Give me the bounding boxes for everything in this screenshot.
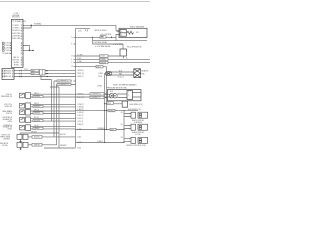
svg-text:SIG RTN: SIG RTN [12, 60, 19, 62]
svg-text:1: 1 [121, 31, 122, 33]
svg-text:MODULE: MODULE [12, 17, 20, 19]
svg-text:1 PNK (2): 1 PNK (2) [77, 104, 84, 106]
svg-text:2 GRN/RTN: 2 GRN/RTN [3, 73, 11, 75]
svg-text:3 GRY (2): 3 GRY (2) [77, 76, 84, 78]
svg-text:4 GRN: 4 GRN [77, 129, 81, 131]
svg-text:BLU: BLU [110, 91, 113, 93]
svg-text:YEL (2): YEL (2) [34, 125, 39, 127]
svg-text:FUEL PMP: FUEL PMP [12, 33, 20, 35]
svg-text:1 GRY (2): 1 GRY (2) [77, 109, 84, 111]
svg-text:GRY/BLK: GRY/BLK [31, 131, 37, 133]
svg-text:4 GRN/BLK (2): 4 GRN/BLK (2) [91, 97, 101, 99]
svg-text:INSTR CLUSTER: INSTR CLUSTER [95, 30, 108, 32]
svg-text:B+: B+ [126, 58, 128, 60]
svg-text:1 GRN 2: 1 GRN 2 [97, 141, 103, 143]
svg-text:1 GRN/BLU: 1 GRN/BLU [97, 128, 105, 130]
svg-text:2 GRN/WHT (2): 2 GRN/WHT (2) [91, 94, 101, 96]
svg-text:HIGH SPEED (OK): HIGH SPEED (OK) [130, 104, 143, 106]
svg-text:PRESSURE SW: PRESSURE SW [1, 96, 13, 98]
svg-text:GRN: GRN [32, 70, 35, 72]
svg-text:3 GRN/LGD: 3 GRN/LGD [3, 76, 12, 78]
svg-text:GRN/WHT: GRN/WHT [60, 145, 67, 147]
svg-text:C2-GRN/YEL (2): C2-GRN/YEL (2) [58, 81, 69, 83]
svg-text:(DIESEL): (DIESEL) [4, 138, 11, 140]
svg-text:PRESSURE SENSOR (VER): PRESSURE SENSOR (VER) [107, 88, 127, 90]
svg-text:1 GRN (2): 1 GRN (2) [77, 70, 84, 72]
svg-text:1 GRN (2): 1 GRN (2) [77, 107, 84, 109]
svg-text:GRNBLU: GRNBLU [109, 110, 115, 112]
svg-text:SENDER: SENDER [100, 62, 106, 64]
svg-text:1 YEL (2): 1 YEL (2) [77, 121, 83, 123]
svg-text:FUEL SENDER: FUEL SENDER [130, 26, 145, 28]
svg-text:GRN 2: GRN 2 [97, 66, 101, 68]
svg-text:LOW COOL: LOW COOL [4, 104, 12, 106]
svg-text:PNK (2): PNK (2) [34, 103, 39, 105]
svg-text:WHT: WHT [32, 73, 35, 75]
svg-text:LT BLU 2: LT BLU 2 [118, 77, 124, 79]
svg-text:2 WHT (2): 2 WHT (2) [77, 73, 84, 75]
svg-text:(LX-DSL): (LX-DSL) [2, 145, 9, 147]
svg-text:B1: B1 [121, 112, 123, 114]
svg-text:BLK/WHT: BLK/WHT [34, 120, 40, 122]
svg-text:B2: B2 [121, 124, 123, 126]
svg-text:SWITCH: SWITCH [6, 113, 12, 115]
svg-text:MILE: MILE [111, 129, 114, 131]
svg-text:PNK: PNK [119, 74, 122, 76]
svg-text:PRESS SNSR: PRESS SNSR [0, 137, 11, 139]
svg-text:DK GRN 3: DK GRN 3 [12, 30, 20, 32]
svg-text:2 BLU: 2 BLU [77, 137, 81, 139]
svg-text:1 BLU (2): 1 BLU (2) [77, 115, 83, 117]
svg-text:12: 12 [71, 66, 73, 68]
svg-text:LOW OIL: LOW OIL [6, 94, 12, 96]
svg-text:BLU (2): BLU (2) [34, 117, 39, 119]
svg-text:C2-P17 (2): C2-P17 (2) [5, 43, 13, 45]
svg-text:1 ORN (2): 1 ORN (2) [77, 112, 84, 114]
svg-text:B3: B3 [121, 137, 123, 139]
svg-text:WHT/BLK: WHT/BLK [34, 96, 40, 98]
svg-text:ORN/BLK: ORN/BLK [34, 113, 40, 115]
svg-text:LEVEL SW: LEVEL SW [5, 106, 13, 108]
svg-text:2 WHT (2): 2 WHT (2) [77, 97, 84, 99]
svg-text:2: 2 [121, 35, 122, 37]
svg-text:BLU/YEL: BLU/YEL [60, 134, 66, 136]
svg-text:(4WD): (4WD) [8, 121, 13, 123]
svg-text:1 GRN/GND: 1 GRN/GND [3, 70, 12, 72]
svg-text:240: 240 [136, 32, 139, 34]
svg-text:HIGH SPEED (OK): HIGH SPEED (OK) [128, 109, 141, 111]
svg-text:C2 48-WAY (GRY): C2 48-WAY (GRY) [12, 20, 26, 23]
svg-text:FUEL GND: FUEL GND [12, 38, 21, 40]
svg-text:SPEED CONTROL (OK): SPEED CONTROL (OK) [126, 145, 146, 147]
svg-text:GRN/YEL: GRN/YEL [34, 145, 40, 147]
svg-text:GRY (2): GRY (2) [34, 110, 40, 112]
svg-text:17 GRY: 17 GRY [77, 55, 82, 57]
svg-text:LT GRN 2: LT GRN 2 [12, 28, 19, 30]
svg-text:C2-P18 (2): C2-P18 (2) [5, 45, 13, 47]
svg-text:1 GRN: 1 GRN [77, 142, 81, 144]
svg-text:C240: C240 [24, 69, 28, 71]
svg-text:SIGGND: SIGGND [100, 59, 106, 61]
svg-text:BLU: BLU [119, 71, 122, 73]
svg-text:5 VOLT: 5 VOLT [100, 56, 105, 58]
svg-text:GRN: GRN [101, 37, 104, 39]
svg-text:GRN/WHT: GRN/WHT [34, 106, 41, 108]
svg-text:(4WD): (4WD) [8, 129, 13, 131]
svg-text:C2-P20 (2): C2-P20 (2) [5, 50, 13, 52]
svg-text:(LOOK): (LOOK) [135, 134, 141, 136]
svg-text:LOW FUEL: LOW FUEL [12, 36, 20, 38]
svg-text:PNK: PNK [108, 103, 111, 105]
svg-text:1 BLK (2): 1 BLK (2) [77, 118, 83, 120]
svg-text:C220: C220 [78, 30, 82, 32]
svg-text:BLU/YEL: BLU/YEL [34, 137, 40, 139]
svg-text:LT GRN 1: LT GRN 1 [12, 25, 19, 27]
svg-text:C2-GRN/WHT (2): C2-GRN/WHT (2) [58, 84, 69, 86]
svg-text:3 BLK: 3 BLK [77, 148, 81, 150]
svg-text:9 PPL: 9 PPL [77, 58, 81, 60]
svg-text:2 BLK: 2 BLK [98, 76, 102, 78]
svg-text:PULL-UP RESISTOR: PULL-UP RESISTOR [127, 47, 142, 49]
svg-text:REF 5V: REF 5V [13, 57, 20, 59]
svg-text:21: 21 [71, 37, 73, 39]
svg-text:B SND: B SND [14, 64, 20, 66]
svg-text:1 GRN: 1 GRN [98, 73, 103, 75]
svg-text:C2-P19 (2): C2-P19 (2) [5, 48, 13, 50]
svg-text:FUEL FLOW: FUEL FLOW [1, 135, 10, 137]
svg-text:SIGNAL: SIGNAL [34, 22, 42, 25]
svg-text:17: 17 [71, 56, 73, 58]
